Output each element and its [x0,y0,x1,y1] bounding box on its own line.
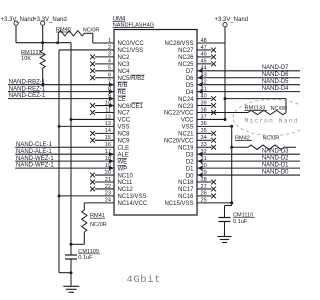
svg-text:NAND-RBZ-1: NAND-RBZ-1 [9,79,46,85]
svg-text:WE: WE [118,159,128,165]
svg-text:CE: CE [118,97,126,103]
svg-text:NC3: NC3 [118,62,131,68]
svg-text:NC11: NC11 [118,180,134,186]
svg-text:NC27: NC27 [178,48,194,54]
svg-text:NAND-WEZ-1: NAND-WEZ-1 [16,156,54,162]
svg-text:NAND-ALE-1: NAND-ALE-1 [16,149,52,155]
svg-text:1: 1 [108,38,111,44]
svg-text:NC12: NC12 [118,187,134,193]
svg-text:NC2: NC2 [118,55,131,61]
svg-text:D1: D1 [186,166,194,172]
svg-text:NC10: NC10 [118,173,134,179]
svg-text:10K: 10K [21,56,31,62]
svg-text:D7: D7 [186,69,194,75]
svg-text:NC26: NC26 [178,55,194,61]
svg-text:0.1uF: 0.1uF [78,255,93,261]
svg-text:VSS: VSS [118,125,130,131]
svg-text:ALE: ALE [118,152,129,158]
svg-text:NC0/VCC: NC0/VCC [118,41,145,47]
svg-text:NC4: NC4 [118,69,131,75]
svg-text:NC20/VCC: NC20/VCC [164,139,194,145]
svg-text:R/B: R/B [118,83,128,89]
svg-text:CLE: CLE [118,145,130,151]
svg-text:NC18: NC18 [178,180,194,186]
svg-text:NC28/VSS: NC28/VSS [164,41,193,47]
svg-text:Micron Nand NA: Micron Nand NA [245,117,301,124]
svg-text:NAND-D4: NAND-D4 [262,86,289,92]
svg-text:NC23: NC23 [178,104,194,110]
svg-text:NAND-D0: NAND-D0 [262,169,289,175]
svg-text:NC21: NC21 [178,132,194,138]
svg-text:WP: WP [118,166,128,172]
svg-text:NAND-D2: NAND-D2 [262,155,289,161]
svg-text:D2: D2 [186,159,194,165]
svg-text:+3.3V_Nand: +3.3V_Nand [33,17,67,23]
svg-text:NAND-CEZ-1: NAND-CEZ-1 [9,93,46,99]
svg-text:NC14/VCC: NC14/VCC [118,201,148,207]
svg-text:D3: D3 [186,152,194,158]
svg-text:4Gbit: 4Gbit [127,274,162,286]
svg-text:NAND-D5: NAND-D5 [262,79,289,85]
svg-text:VSS: VSS [181,125,193,131]
svg-text:D4: D4 [186,90,194,96]
svg-text:NC/0R: NC/0R [263,136,280,142]
svg-text:D0: D0 [186,173,194,179]
svg-text:NC7: NC7 [118,111,131,117]
svg-text:NAND-CLE-1: NAND-CLE-1 [16,142,53,148]
svg-text:NC6/CE1: NC6/CE1 [118,104,144,110]
svg-text:NC13/VSS: NC13/VSS [118,194,147,200]
svg-text:D6: D6 [186,76,194,82]
svg-text:NC1/VSS: NC1/VSS [118,48,144,54]
svg-text:NAND-WPZ-1: NAND-WPZ-1 [16,163,54,169]
svg-text:+3.3V_Nand: +3.3V_Nand [1,17,35,23]
svg-text:NC5/R/B2: NC5/R/B2 [118,76,146,82]
svg-text:D5: D5 [186,83,194,89]
svg-text:NAND-D3: NAND-D3 [262,148,289,154]
svg-text:NAND-D1: NAND-D1 [262,162,289,168]
svg-text:VCC: VCC [181,118,194,124]
svg-text:NC22/VCC: NC22/VCC [164,111,194,117]
svg-text:NC/0R: NC/0R [271,106,288,112]
svg-text:NC8: NC8 [118,132,131,138]
svg-text:RE: RE [118,90,126,96]
svg-text:NAND-D6: NAND-D6 [262,72,289,78]
svg-text:NC19: NC19 [178,145,194,151]
svg-text:NC15/VSS: NC15/VSS [164,201,193,207]
svg-text:NC17: NC17 [178,187,194,193]
svg-text:+3.3V_Nand: +3.3V_Nand [215,17,249,23]
svg-text:NAND-D7: NAND-D7 [262,65,289,71]
svg-text:VCC: VCC [118,118,131,124]
svg-text:NC16: NC16 [178,194,194,200]
svg-text:NC/0R: NC/0R [90,222,107,228]
svg-text:NC9: NC9 [118,139,131,145]
svg-text:NAND-REZ-1: NAND-REZ-1 [9,86,46,92]
svg-text:NC/0R: NC/0R [83,28,100,34]
svg-text:0.1uF: 0.1uF [233,219,248,225]
svg-text:NC24: NC24 [178,97,194,103]
svg-text:NC25: NC25 [178,62,194,68]
